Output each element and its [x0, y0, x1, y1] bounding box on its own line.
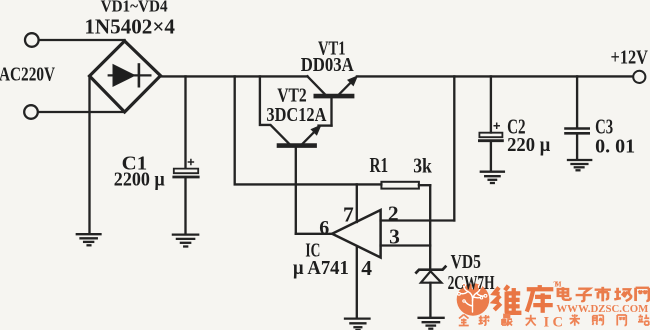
bridge rectifier VD1~VD4	[90, 41, 161, 112]
watermark char WEI	[494, 286, 521, 313]
transistor VT1 DD03A	[307, 76, 356, 96]
wire supply branch down to op-amp row	[235, 76, 382, 184]
svg-text:WWW.DZSC.COM: WWW.DZSC.COM	[556, 304, 648, 315]
watermark char DIAN	[558, 287, 571, 300]
char QUAN	[459, 315, 469, 326]
svg-text:VD5: VD5	[451, 252, 481, 273]
wire C1 to ground	[184, 178, 186, 234]
ground (op-amp pin4)	[345, 319, 370, 330]
svg-text:IC: IC	[544, 315, 567, 330]
char DA	[526, 315, 537, 326]
wire C1 branch down	[184, 76, 186, 167]
char CAI	[570, 314, 581, 326]
svg-text:0. 01: 0. 01	[595, 137, 635, 158]
svg-text:6: 6	[319, 217, 329, 239]
ground (C3)	[568, 160, 591, 170]
svg-text:AC220V: AC220V	[0, 65, 55, 86]
watermark char ZI	[576, 289, 592, 301]
wire C2 to ground	[490, 142, 492, 171]
svg-text:C3: C3	[595, 115, 613, 139]
watermark char KU	[527, 285, 554, 313]
terminal AC bottom	[24, 105, 38, 119]
svg-text:TM: TM	[554, 281, 562, 289]
svg-text:220 µ: 220 µ	[507, 135, 550, 156]
char GOU	[593, 315, 604, 325]
svg-text:VD1~VD4: VD1~VD4	[101, 0, 168, 16]
svg-text:2: 2	[388, 201, 399, 225]
watermark char CHANG	[614, 288, 631, 301]
char WANG2	[617, 315, 626, 326]
terminal +12V output	[633, 71, 645, 83]
svg-text:4: 4	[361, 256, 372, 280]
wire regulated +12V rail	[357, 75, 633, 77]
op-amp U1 uA741 triangle	[332, 210, 381, 258]
svg-text:2CW7H: 2CW7H	[448, 273, 495, 294]
wire C3 branch	[576, 76, 578, 127]
wire VD5 to ground	[429, 283, 431, 317]
zener diode VD5 2CW7H	[416, 267, 445, 283]
wire pin3	[381, 244, 431, 246]
svg-text:2200 µ: 2200 µ	[114, 168, 165, 190]
wire bottom terminal to bridge bottom vertex	[38, 111, 124, 113]
svg-text:3k: 3k	[413, 153, 432, 177]
wire op-amp output pin6	[296, 233, 332, 235]
svg-text:DD03A: DD03A	[301, 54, 354, 76]
terminal AC top	[25, 33, 39, 47]
watermark logo circle	[457, 282, 490, 316]
wire VT2 collector branch	[260, 76, 289, 143]
transistor VT2 3DC12A	[279, 126, 332, 146]
wire pin7 supply	[356, 184, 358, 222]
capacitor C3 0.01	[566, 129, 589, 134]
svg-text:1N5402×4: 1N5402×4	[84, 15, 175, 39]
svg-text:R1: R1	[370, 153, 389, 177]
ground (VD5)	[419, 318, 444, 329]
svg-text:7: 7	[343, 203, 354, 227]
wire pin4 to ground	[356, 246, 358, 318]
wire vertical R1/pin2/pin3 to VD5	[429, 185, 431, 268]
svg-text:µ A741: µ A741	[293, 258, 349, 279]
resistor R1 3k	[381, 182, 419, 189]
wire R1 right to VD5 vertical	[419, 184, 430, 186]
char ZHAN	[638, 315, 649, 326]
watermark slogan	[459, 314, 650, 330]
char ZUI	[502, 315, 512, 326]
wire bridge left vertex to ground	[88, 76, 90, 234]
wire C3 to ground	[576, 134, 578, 159]
wire VT2 base lead down to pin6 wire	[295, 148, 297, 234]
ground (C1)	[173, 235, 198, 247]
svg-text:3: 3	[389, 224, 400, 248]
ground (C2)	[481, 172, 504, 183]
wire VT1 base lead	[330, 98, 332, 126]
wire top terminal to bridge top vertex	[39, 39, 125, 41]
wire feedback branch down from +12V rail	[453, 76, 455, 220]
watermark char WANG	[636, 288, 649, 301]
svg-text:3DC12A: 3DC12A	[266, 104, 326, 126]
watermark char SHI	[595, 287, 611, 302]
capacitor C1 2200u (polarized)	[174, 160, 198, 178]
char QIU	[479, 315, 490, 325]
wire main unregulated rail	[161, 75, 308, 77]
svg-text:+12V: +12V	[611, 48, 649, 69]
wire C2 branch	[490, 76, 492, 132]
watermark	[457, 281, 650, 330]
wire pin2	[381, 219, 455, 221]
capacitor C2 220u (polarized)	[479, 123, 502, 141]
ground (bridge negative)	[77, 234, 101, 245]
diode symbol inside bridge	[109, 65, 151, 87]
